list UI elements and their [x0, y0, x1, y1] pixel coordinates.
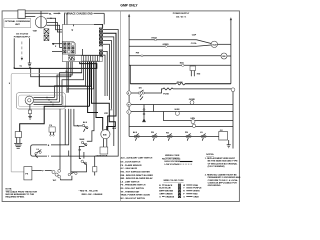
- svg-text:* RED HI - YELLOW: * RED HI - YELLOW: [79, 191, 98, 193]
- wire top right: [94, 12, 105, 14]
- svg-text:OPTIONAL CONDENSING: OPTIONAL CONDENSING: [5, 20, 31, 23]
- right rail L2: [230, 20, 232, 84]
- board bottom connector strip: [68, 54, 102, 56]
- svg-text:CONFORM TO N.E.C. & LOCAL: CONFORM TO N.E.C. & LOCAL: [208, 179, 239, 182]
- svg-text:FURNACE CHASSIS GND: FURNACE CHASSIS GND: [64, 12, 93, 15]
- svg-text:PERMANENTLY GROUNDED AND: PERMANENTLY GROUNDED AND: [208, 176, 241, 179]
- svg-text:POWER SUPPLY: POWER SUPPLY: [14, 36, 31, 38]
- optional condensing unit box: [4, 19, 31, 28]
- svg-text:UNIT: UNIT: [15, 24, 21, 26]
- transformer primary loop: [129, 65, 131, 84]
- left rail L1: [128, 16, 130, 137]
- thick power wires: [14, 62, 97, 69]
- svg-text:IDB: IDB: [103, 134, 107, 136]
- svg-text:BE THE SAME SIZE AND TYPE: BE THE SAME SIZE AND TYPE: [208, 160, 239, 163]
- svg-text:2. REMOVAL CABINET MUST BE: 2. REMOVAL CABINET MUST BE: [205, 173, 237, 176]
- FS sensor lower: [93, 167, 97, 172]
- triangle mark: [71, 30, 73, 32]
- connector verticals: [154, 105, 164, 121]
- svg-text:CAP: CAP: [192, 34, 197, 37]
- svg-text:IBR - INDUCED BLOWER RELAY: IBR - INDUCED BLOWER RELAY: [121, 177, 154, 180]
- svg-text:BLACK: BLACK: [165, 184, 173, 187]
- svg-text:GROUNDING.: GROUNDING.: [208, 185, 222, 187]
- blower motor BLM: [211, 41, 217, 47]
- svg-text:BLM: BLM: [213, 44, 218, 46]
- svg-text:FACTORY WIRING:: FACTORY WIRING:: [162, 158, 181, 161]
- IDB capacitor: [103, 139, 105, 147]
- svg-text:GV - GAS VALVE: GV - GAS VALVE: [121, 167, 138, 170]
- rounded wire loop with LS: [31, 145, 47, 156]
- svg-text:T2M: T2M: [33, 30, 37, 32]
- svg-text:115 / 60 / 1: 115 / 60 / 1: [176, 16, 187, 18]
- connector block on board: [63, 41, 76, 54]
- svg-text:DS - DOOR SWITCH: DS - DOOR SWITCH: [121, 162, 141, 164]
- verticals housing to lower components: [59, 109, 61, 170]
- wires transformer to board: [47, 18, 63, 30]
- svg-text:CODES AS APPLICABLE FOR: CODES AS APPLICABLE FOR: [208, 182, 238, 185]
- svg-text:HSI: HSI: [197, 73, 201, 75]
- svg-text:(105°C MINIMUM): (105°C MINIMUM): [208, 166, 225, 168]
- svg-text:FS - FLAME SENSOR: FS - FLAME SENSOR: [121, 164, 143, 167]
- svg-text:W: W: [183, 185, 185, 187]
- svg-text:RED LOW - ORANGE: RED LOW - ORANGE: [82, 193, 103, 196]
- svg-text:LOW VOLTAGE: LOW VOLTAGE: [165, 163, 181, 166]
- gas valve GV: [219, 132, 228, 141]
- svg-text:NOTES:: NOTES:: [206, 154, 214, 156]
- svg-text:ALS - AUXILIARY LIMIT SWITCH: ALS - AUXILIARY LIMIT SWITCH: [121, 157, 153, 160]
- PS pressure switch box: [24, 167, 32, 180]
- svg-text:ORANGE: ORANGE: [165, 195, 174, 198]
- 24V row B: [127, 110, 131, 114]
- separator line: [119, 11, 121, 202]
- door switch row: [58, 170, 61, 173]
- svg-text:MAN: MAN: [80, 138, 85, 141]
- svg-text:1. REPLACEMENT WIRE MUST: 1. REPLACEMENT WIRE MUST: [205, 157, 236, 160]
- IDM motor: [221, 53, 227, 59]
- 24V row C: [163, 120, 233, 122]
- junction box J1: [18, 10, 25, 18]
- svg-text:BLW: BLW: [112, 128, 116, 130]
- svg-text:WC: WC: [53, 180, 57, 182]
- border frame: [2, 11, 239, 202]
- flame sensor plug: [49, 127, 55, 132]
- svg-text:NOTE:: NOTE:: [6, 188, 13, 190]
- IDB motor: [101, 130, 110, 139]
- motor capacitor: [29, 105, 31, 111]
- right wire bundle from board terminals: [69, 30, 118, 157]
- svg-text:TRAN- POWER XFMR 115/24V: TRAN- POWER XFMR 115/24V: [121, 194, 151, 197]
- svg-text:FUSE: FUSE: [163, 93, 169, 95]
- svg-text:GREEN: GREEN: [165, 194, 173, 196]
- wire chassis gnd: [25, 12, 48, 14]
- svg-text:CAPACITOR: CAPACITOR: [96, 155, 108, 158]
- svg-text:EAC: EAC: [180, 61, 185, 64]
- svg-text:HSI - HOT SURFACE IGNITER: HSI - HOT SURFACE IGNITER: [121, 171, 151, 174]
- gray ground wire: [11, 73, 82, 172]
- svg-text:HIGH VOLTAGE: HIGH VOLTAGE: [165, 160, 181, 163]
- svg-text:ALS: ALS: [83, 121, 88, 124]
- thick wires down: [88, 62, 98, 113]
- svg-text:115 VOLT/60: 115 VOLT/60: [16, 34, 29, 36]
- transformer T1 circle: [35, 17, 46, 28]
- svg-text:RED: RED: [193, 194, 198, 196]
- staircase wires from board bottom to motor: [60, 62, 82, 103]
- terminal boxes qc: [44, 29, 49, 34]
- svg-text:IDB - INDUCED DRAFT BLOWER: IDB - INDUCED DRAFT BLOWER: [121, 174, 154, 177]
- svg-text:HUM: HUM: [175, 109, 180, 111]
- board top wires up: [64, 13, 66, 24]
- svg-text:BLUE: BLUE: [165, 188, 171, 190]
- 24V row D: [129, 126, 233, 128]
- blower housing: [16, 93, 65, 109]
- svg-text:BROWN: BROWN: [165, 191, 173, 193]
- svg-text:WHITE: WHITE: [193, 191, 200, 193]
- HSI symbol: [190, 66, 196, 71]
- svg-text:MAY BE ARRANGED TO THE: MAY BE ARRANGED TO THE: [6, 193, 35, 196]
- wire junction to unit: [25, 16, 35, 18]
- svg-text:COOL: COOL: [191, 43, 198, 45]
- control board: [62, 25, 102, 62]
- board right terminals: [99, 28, 102, 57]
- svg-text:PURPLE: PURPLE: [193, 188, 202, 190]
- power supply leads: [13, 38, 15, 67]
- svg-text:GMP ONLY: GMP ONLY: [120, 3, 138, 7]
- svg-text:GRAY: GRAY: [193, 195, 199, 198]
- svg-text:WIRING CODE: WIRING CODE: [165, 155, 180, 157]
- blower motor: [25, 96, 33, 104]
- svg-text:ALS: ALS: [133, 131, 138, 134]
- svg-text:MV - MILLIVOLT SWITCH: MV - MILLIVOLT SWITCH: [121, 198, 146, 200]
- mid switch column: [74, 109, 82, 126]
- GV rung: [129, 135, 219, 137]
- svg-text:PINK: PINK: [193, 185, 198, 187]
- svg-text:PW: PW: [136, 53, 139, 55]
- svg-text:REQUIRED SPEED.: REQUIRED SPEED.: [6, 197, 26, 199]
- thick wire to HSI: [20, 106, 90, 131]
- svg-text:PS - PRESSURE SWITCH: PS - PRESSURE SWITCH: [121, 185, 146, 187]
- thermostat symbol: [143, 105, 146, 122]
- svg-text:W: W: [128, 104, 130, 106]
- svg-text:OF INSULATION AS ORIGINAL: OF INSULATION AS ORIGINAL: [208, 162, 238, 165]
- svg-text:LS - LIMIT SWITCH: LS - LIMIT SWITCH: [121, 181, 140, 183]
- gnd hatch: [28, 63, 32, 67]
- 24V: fuse row: [127, 91, 131, 95]
- svg-text:RS - ROLLOUT SWITCH: RS - ROLLOUT SWITCH: [121, 188, 145, 190]
- svg-text:POWER SUPPLY: POWER SUPPLY: [173, 13, 190, 15]
- 24V row A: [127, 102, 131, 106]
- wire into top right terminal: [94, 24, 103, 27]
- svg-text:TH - THERMOSTAT: TH - THERMOSTAT: [121, 190, 140, 193]
- svg-text:THE LEADS FROM THE MOTOR: THE LEADS FROM THE MOTOR: [6, 190, 38, 193]
- HSI igniter: [15, 132, 21, 138]
- svg-text:WIRE COLOR CODE: WIRE COLOR CODE: [164, 180, 185, 182]
